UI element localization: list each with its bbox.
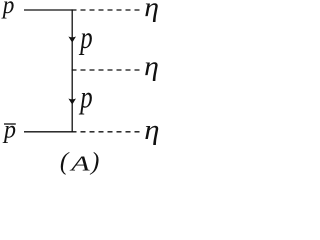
svg-text:η: η [144, 115, 159, 146]
svg-text:A: A [69, 152, 91, 176]
arrow 1 on vertical line (downward) [68, 37, 76, 43]
wire: eta dashed line (bottom) [72, 131, 140, 133]
label p-bar overline (antiproton, bottom left) [4, 123, 16, 125]
wire: antiproton line (bottom solid) [24, 131, 73, 133]
wire: eta dashed line (middle) [72, 69, 140, 71]
svg-text:p: p [79, 21, 93, 56]
wire: eta dashed line (top) [72, 9, 140, 11]
svg-text:): ) [89, 148, 99, 175]
svg-text:p: p [1, 0, 14, 19]
wire: vertical exchanged proton line [71, 10, 73, 132]
arrow 2 on vertical line (downward) [68, 99, 76, 105]
svg-text:η: η [144, 0, 159, 22]
svg-text:p: p [79, 81, 93, 116]
svg-text:η: η [144, 52, 159, 81]
wire: proton line (top solid) [24, 9, 73, 11]
svg-text:p: p [2, 116, 16, 144]
